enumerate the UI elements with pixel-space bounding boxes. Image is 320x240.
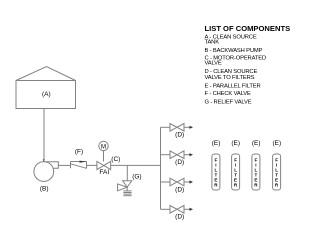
svg-text:VALVE TO FILTERS: VALVE TO FILTERS xyxy=(205,75,255,81)
svg-text:E - PARALLEL FILTER: E - PARALLEL FILTER xyxy=(205,83,261,89)
svg-text:(B): (B) xyxy=(40,186,49,193)
svg-text:LIST OF COMPONENTS: LIST OF COMPONENTS xyxy=(205,24,291,33)
svg-text:(E): (E) xyxy=(212,140,221,147)
svg-text:TANK: TANK xyxy=(205,40,220,46)
svg-text:(E): (E) xyxy=(252,140,261,147)
svg-text:M: M xyxy=(101,144,106,150)
svg-text:(E): (E) xyxy=(272,140,281,147)
svg-text:(A): (A) xyxy=(42,91,51,98)
svg-text:(D): (D) xyxy=(175,214,184,221)
svg-text:(F): (F) xyxy=(75,148,83,155)
svg-text:(D): (D) xyxy=(175,159,184,166)
svg-text:(C): (C) xyxy=(111,156,120,163)
svg-text:(E): (E) xyxy=(231,140,240,147)
svg-text:(D): (D) xyxy=(175,186,184,193)
svg-text:(D): (D) xyxy=(175,132,184,139)
svg-text:F - CHECK VALVE: F - CHECK VALVE xyxy=(205,91,251,97)
svg-text:B - BACKWASH PUMP: B - BACKWASH PUMP xyxy=(205,48,263,54)
svg-text:VALVE: VALVE xyxy=(205,61,222,67)
svg-text:FAI: FAI xyxy=(99,169,109,176)
svg-text:(G): (G) xyxy=(132,173,141,180)
svg-text:G - RELIEF VALVE: G - RELIEF VALVE xyxy=(205,100,252,106)
